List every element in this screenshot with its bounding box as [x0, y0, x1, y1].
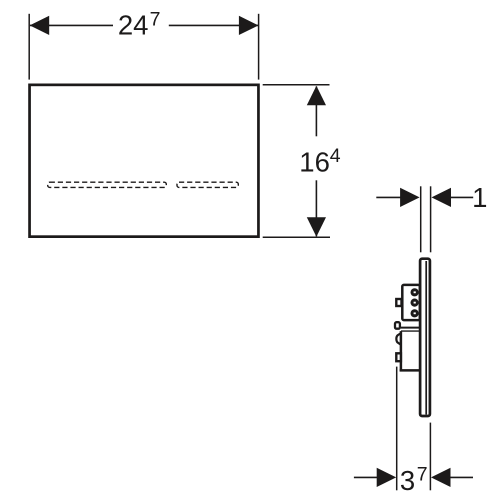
- dimension 1: right line: [451, 196, 474, 198]
- svg-text:7: 7: [417, 464, 428, 486]
- side view: middle strip line 2: [401, 330, 420, 332]
- dimension 16-4: top arrowhead: [307, 86, 326, 106]
- side view: pressure plate outline: [420, 259, 430, 416]
- dimension 1: left line: [376, 196, 401, 198]
- dimension 3-7: right line: [450, 476, 473, 478]
- dimension 3-7: right arrowhead: [431, 468, 451, 487]
- svg-text:16: 16: [299, 146, 330, 177]
- dimension 3-7: left extension line: [396, 367, 398, 491]
- side view: middle strip line 1: [401, 327, 420, 329]
- side view: upper mechanism box: [402, 285, 420, 320]
- dimension 3-7: left line: [354, 476, 378, 478]
- side view: left bracket: [395, 322, 400, 329]
- dimension 24-7: left arrowhead: [30, 16, 50, 35]
- dimension 24-7: left line segment: [30, 24, 113, 26]
- dimension 16-4: lower line segment: [315, 180, 317, 236]
- side view: screw 1: [411, 288, 419, 296]
- front view plate outline: [30, 85, 259, 237]
- svg-text:1: 1: [472, 182, 487, 213]
- dimension 16-4: upper line segment: [315, 87, 317, 137]
- svg-text:3: 3: [400, 465, 415, 496]
- dimension 24-7: right arrowhead: [239, 16, 259, 35]
- dimension 16-4: top extension line: [263, 84, 330, 86]
- svg-text:4: 4: [330, 145, 341, 167]
- dimension 24-7: left extension line: [28, 14, 30, 80]
- svg-text:7: 7: [150, 9, 161, 31]
- dimension 1: left arrowhead: [400, 188, 420, 207]
- left sensor slot (hidden dashed): [48, 182, 167, 187]
- side view: lower left tab: [396, 353, 401, 361]
- side view: lower box bottom edge: [400, 369, 420, 372]
- dimension 16-4: bottom arrowhead: [307, 217, 326, 237]
- side view: screw 2: [411, 299, 419, 307]
- side view: screw 3: [411, 309, 419, 317]
- right sensor slot (hidden dashed): [177, 182, 238, 187]
- dimension 1: right extension line: [430, 186, 432, 252]
- svg-text:24: 24: [118, 10, 149, 41]
- dimension 24-7: right extension line: [258, 14, 260, 80]
- dimension 3-7: right extension line: [429, 423, 431, 491]
- side view: left clip: [396, 333, 401, 345]
- dimension 1: left extension line: [420, 186, 422, 252]
- dimension 24-7: right line segment: [169, 24, 258, 26]
- dimension 3-7: left arrowhead: [377, 468, 397, 487]
- side view: plate front face line: [425, 261, 427, 415]
- dimension 16-4: bottom extension line: [263, 236, 330, 238]
- side view: lower box left edge: [400, 331, 403, 371]
- dimension 1: right arrowhead: [432, 188, 452, 207]
- side view: upper left tab: [396, 299, 401, 306]
